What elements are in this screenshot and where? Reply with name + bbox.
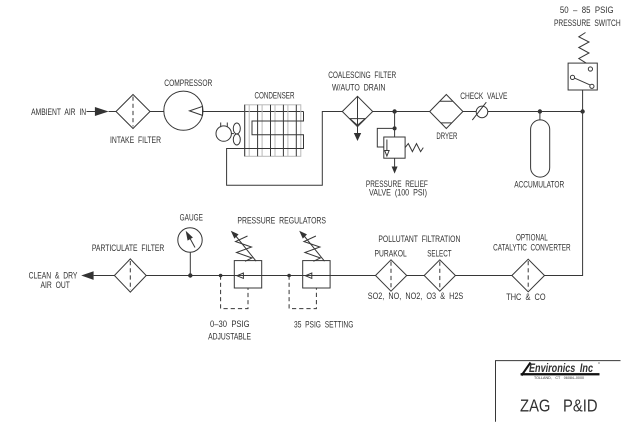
svg-text:POLLUTANT FILTRATION: POLLUTANT FILTRATION (378, 234, 460, 244)
svg-text:AIR OUT: AIR OUT (41, 280, 71, 290)
title block border (495, 361, 621, 422)
svg-text:CATALYTIC CONVERTER: CATALYTIC CONVERTER (493, 243, 571, 253)
wire particulate filter to purakol (146, 275, 375, 277)
relief valve PSV body (384, 137, 405, 158)
filter F5 SELECT scrubber (424, 260, 455, 291)
wire intake filter to compressor (150, 111, 164, 113)
wire purakol to select (407, 275, 425, 277)
svg-text:PRESSURE SWITCH: PRESSURE SWITCH (554, 18, 621, 28)
svg-text:SO2, NO, NO2, O3 & H2S: SO2, NO, NO2, O3 & H2S (368, 291, 464, 301)
wire PR1 sense line (dashed) (221, 276, 248, 309)
wire compressor to condenser (203, 111, 304, 113)
svg-text:OPTIONAL: OPTIONAL (516, 233, 548, 243)
wire PR2 sense line (dashed) (289, 276, 316, 309)
regulator PR1 body (234, 261, 261, 288)
svg-text:TOLLAND, CT 06084–0000: TOLLAND, CT 06084–0000 (534, 376, 584, 380)
condenser fins (245, 105, 297, 157)
compressor P1 (164, 91, 203, 130)
condenser coil serpentine (227, 112, 343, 186)
svg-text:INTAKE FILTER: INTAKE FILTER (110, 135, 161, 145)
junction node to relief valve (392, 109, 396, 113)
vent arrow (392, 167, 398, 174)
junction node PR1 sense tap (219, 274, 223, 278)
filter F1 INTAKE FILTER (116, 95, 150, 129)
wire coalescing filter to dryer (373, 111, 430, 113)
svg-text:CHECK VALVE: CHECK VALVE (460, 91, 507, 101)
wire check valve to right riser (488, 111, 583, 113)
wire select to catalytic converter (455, 275, 512, 277)
check valve CV1 (476, 106, 488, 118)
regulator PR2 body (303, 261, 330, 288)
logo Environics Inc (521, 362, 600, 380)
svg-text:SELECT: SELECT (427, 248, 452, 258)
fan blades (233, 123, 240, 134)
condenser fin frame (light) (245, 105, 301, 157)
wire accumulator stem (539, 112, 541, 121)
junction node riser tap (580, 109, 584, 113)
pressure switch spring (579, 33, 589, 64)
svg-text:35 PSIG SETTING: 35 PSIG SETTING (294, 320, 353, 330)
relief valve pilot line (377, 128, 394, 147)
regulator PR2 adjusting arrow (303, 235, 324, 261)
svg-text:COALESCING FILTER: COALESCING FILTER (328, 70, 396, 80)
svg-text:GAUGE: GAUGE (180, 212, 203, 222)
svg-text:W/AUTO DRAIN: W/AUTO DRAIN (332, 82, 386, 92)
regulator PR1 adjusting arrow (235, 235, 256, 261)
regulator PR2 spring (304, 236, 321, 261)
svg-text:DRYER: DRYER (436, 131, 457, 141)
svg-text:PURAKOL: PURAKOL (375, 248, 407, 258)
svg-text:PRESSURE REGULATORS: PRESSURE REGULATORS (237, 216, 326, 226)
svg-text:50 – 85 PSIG: 50 – 85 PSIG (560, 5, 614, 15)
svg-text:°: ° (598, 362, 600, 368)
wire arrow to intake filter (109, 111, 116, 113)
wire gauge stem (189, 252, 191, 275)
wire auto drain (357, 127, 359, 134)
gauge PI1 (178, 228, 202, 252)
fan motor (216, 126, 231, 141)
wire inlet (87, 111, 96, 113)
regulator PR1 spring (236, 236, 253, 261)
dryer D1 (430, 95, 463, 129)
wire outlet (94, 275, 115, 277)
converter F6 catalytic converter (512, 259, 545, 292)
drain arrow (354, 133, 361, 141)
accumulator T1 (531, 120, 550, 177)
filter F3 PARTICULATE FILTER (114, 259, 146, 292)
svg-text:VALVE (100 PSI): VALVE (100 PSI) (369, 187, 427, 197)
svg-text:ADJUSTABLE: ADJUSTABLE (208, 332, 251, 342)
pressure switch PS1 body (568, 63, 597, 90)
pressure switch contacts (570, 75, 574, 79)
wire relief valve vent (394, 158, 396, 167)
junction node PR2 sense tap (287, 274, 291, 278)
inlet flow arrow (95, 107, 109, 116)
svg-text:COMPRESSOR: COMPRESSOR (164, 78, 212, 88)
outlet flow arrow (81, 271, 93, 280)
svg-text:ACCUMULATOR: ACCUMULATOR (514, 180, 564, 190)
wire dryer to check valve (463, 111, 476, 113)
svg-text:ZAG P&ID: ZAG P&ID (520, 396, 598, 416)
svg-text:THC & CO: THC & CO (506, 292, 545, 302)
filter F4 PURAKOL scrubber (376, 260, 407, 291)
svg-text:PARTICULATE FILTER: PARTICULATE FILTER (92, 243, 165, 253)
junction node gauge tap (188, 273, 192, 277)
junction node accumulator tap (538, 109, 542, 113)
svg-text:CONDENSER: CONDENSER (255, 91, 295, 101)
wire down to relief valve (394, 112, 396, 138)
svg-text:0–30 PSIG: 0–30 PSIG (210, 319, 250, 329)
relief valve spring (405, 144, 423, 152)
filter F2 COALESCING FILTER (342, 96, 372, 126)
wire riser (pressure switch to bottom line) (545, 90, 583, 276)
svg-text:AMBIENT AIR IN: AMBIENT AIR IN (31, 107, 86, 117)
